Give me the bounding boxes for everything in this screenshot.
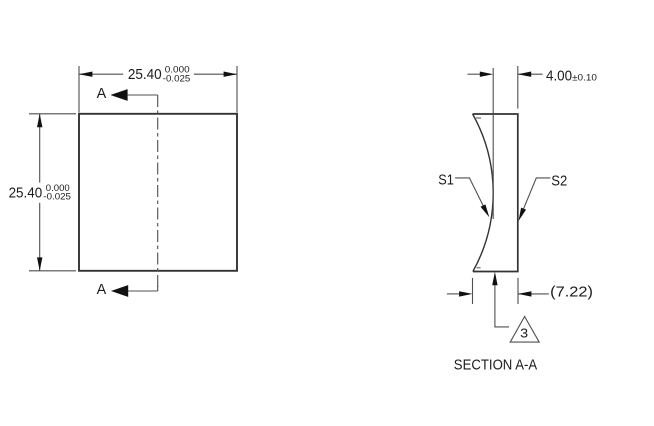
svg-text:25.40: 25.40 bbox=[9, 186, 43, 202]
svg-text:4.00: 4.00 bbox=[546, 68, 572, 84]
svg-text:SECTION A-A: SECTION A-A bbox=[454, 357, 538, 373]
svg-text:-0.025: -0.025 bbox=[163, 73, 191, 83]
svg-text:S1: S1 bbox=[438, 173, 454, 189]
svg-text:A: A bbox=[97, 86, 107, 102]
svg-text:A: A bbox=[97, 282, 107, 298]
svg-text:(7.22): (7.22) bbox=[550, 285, 593, 301]
svg-text:±0.10: ±0.10 bbox=[572, 72, 597, 82]
svg-text:3: 3 bbox=[520, 326, 528, 340]
svg-text:25.40: 25.40 bbox=[128, 67, 162, 83]
svg-text:-0.025: -0.025 bbox=[43, 192, 71, 202]
svg-text:S2: S2 bbox=[551, 173, 567, 189]
